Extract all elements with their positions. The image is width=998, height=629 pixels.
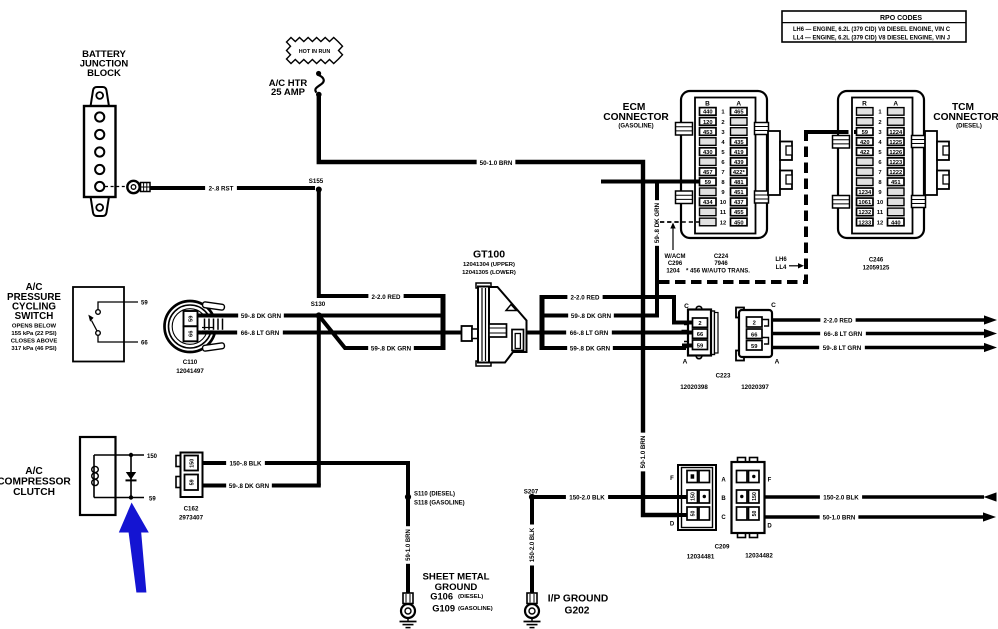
svg-text:G109: G109 <box>432 604 455 614</box>
svg-text:CLOSES ABOVE: CLOSES ABOVE <box>11 338 58 344</box>
C246 label <box>863 258 890 272</box>
svg-text:I/P GROUND: I/P GROUND <box>548 594 608 605</box>
splice S155 <box>309 178 324 193</box>
svg-text:A: A <box>893 101 898 108</box>
connector C110 <box>165 301 228 375</box>
svg-text:RPO CODES: RPO CODES <box>880 15 922 22</box>
svg-text:(DIESEL): (DIESEL) <box>458 594 483 600</box>
wire stubs into C223 <box>688 323 693 346</box>
svg-text:G106: G106 <box>430 592 453 602</box>
svg-text:435: 435 <box>734 140 744 146</box>
svg-text:150-2.0 BLK: 150-2.0 BLK <box>569 494 605 501</box>
wire 59-.8 DK GRN right (to ECM) <box>542 182 661 321</box>
svg-text:LL4 — ENGINE, 6.2L (379 CID) V: LL4 — ENGINE, 6.2L (379 CID) V8 DIESEL E… <box>793 36 950 42</box>
ring terminal <box>127 181 150 193</box>
svg-text:12041497: 12041497 <box>176 368 204 375</box>
TCM connector C246 <box>833 91 950 238</box>
svg-text:317 kPa (46 PSI): 317 kPa (46 PSI) <box>11 346 56 352</box>
svg-text:50-1.0 BRN: 50-1.0 BRN <box>480 160 513 167</box>
RPO codes table <box>782 11 966 42</box>
svg-text:66-.8 LT GRN: 66-.8 LT GRN <box>570 330 609 337</box>
svg-text:59-.8 DK GRN: 59-.8 DK GRN <box>570 345 611 352</box>
ECM connector C224 <box>676 91 793 238</box>
svg-text:12041304 (UPPER): 12041304 (UPPER) <box>463 262 515 268</box>
fuse A/C HTR 25 AMP <box>269 71 324 98</box>
svg-text:C224: C224 <box>714 254 729 260</box>
svg-text:2: 2 <box>698 321 701 327</box>
A/C compressor clutch <box>0 437 158 515</box>
svg-text:25 AMP: 25 AMP <box>271 87 306 98</box>
wire 59-.8 LT GRN output <box>772 343 997 352</box>
svg-text:453: 453 <box>703 130 713 136</box>
svg-text:59: 59 <box>141 301 148 307</box>
svg-text:150-.8 BLK: 150-.8 BLK <box>230 460 263 467</box>
svg-text:59-.8 LT GRN: 59-.8 LT GRN <box>823 345 862 352</box>
svg-text:C246: C246 <box>869 258 884 264</box>
svg-text:BLOCK: BLOCK <box>87 68 121 79</box>
svg-text:12034482: 12034482 <box>745 553 773 560</box>
svg-text:(DIESEL): (DIESEL) <box>956 124 982 130</box>
svg-text:R: R <box>862 101 867 108</box>
svg-text:7: 7 <box>721 170 724 176</box>
svg-text:C223: C223 <box>716 373 731 380</box>
svg-text:440: 440 <box>891 220 901 226</box>
wire 50-1.0 BRN <box>319 96 688 515</box>
W/ACM C296 callout <box>665 223 686 275</box>
svg-text:7: 7 <box>878 170 881 176</box>
wire 59-.8 DK GRN to C162 <box>203 482 321 490</box>
svg-text:C162: C162 <box>184 506 199 513</box>
svg-text:12020397: 12020397 <box>741 384 769 391</box>
svg-text:A: A <box>736 101 741 108</box>
wire 66-.8 LT GRN output <box>772 329 997 338</box>
svg-text:D: D <box>670 522 675 528</box>
svg-text:LH6: LH6 <box>775 257 787 263</box>
wire from S130 down to C162 <box>317 317 321 486</box>
svg-text:419: 419 <box>734 150 744 156</box>
svg-text:150-2.0 BLK: 150-2.0 BLK <box>530 527 536 562</box>
svg-text:59-.8 DK GRN: 59-.8 DK GRN <box>241 313 282 320</box>
splice S110 <box>405 491 465 506</box>
A/C pressure cycling switch <box>7 282 148 362</box>
ECM connector label <box>603 102 669 130</box>
dashed stub into TCM pin R3 <box>806 130 857 134</box>
svg-text:1232: 1232 <box>858 210 871 216</box>
svg-text:120: 120 <box>703 120 713 126</box>
svg-text:S207: S207 <box>524 488 539 495</box>
dashed wire to C296 (W/ACM) <box>660 221 700 223</box>
svg-text:451: 451 <box>891 180 901 186</box>
C224 label <box>686 254 750 274</box>
svg-text:50-1.0 BRN: 50-1.0 BRN <box>823 514 856 521</box>
svg-text:OPENS BELOW: OPENS BELOW <box>12 323 57 329</box>
svg-text:150: 150 <box>147 454 158 460</box>
svg-text:C: C <box>721 515 726 521</box>
wire 150-2.0 BLK right <box>532 494 688 502</box>
wire 2-2.0 RED right <box>542 294 692 323</box>
svg-text:LL4: LL4 <box>776 265 787 271</box>
svg-text:G202: G202 <box>565 606 590 617</box>
svg-text:1234: 1234 <box>858 190 872 196</box>
svg-text:481: 481 <box>734 180 744 186</box>
svg-text:W/ACM: W/ACM <box>665 254 686 260</box>
connector 12034482 <box>721 458 773 560</box>
svg-text:59: 59 <box>188 315 194 322</box>
svg-text:S155: S155 <box>309 178 324 185</box>
wire 2-2.0 RED left <box>319 190 443 301</box>
LH6 LL4 callout <box>775 257 804 271</box>
svg-text:HOT IN RUN: HOT IN RUN <box>299 49 331 55</box>
svg-text:A: A <box>775 359 780 366</box>
svg-text:50-1.0 BRN: 50-1.0 BRN <box>640 435 647 468</box>
svg-text:* 456 W/AUTO TRANS.: * 456 W/AUTO TRANS. <box>686 268 750 274</box>
svg-text:C296: C296 <box>668 261 683 267</box>
svg-text:2-2.0 RED: 2-2.0 RED <box>571 294 600 301</box>
svg-text:S110 (DIESEL): S110 (DIESEL) <box>414 491 455 497</box>
svg-text:C: C <box>771 302 776 309</box>
wire 66-.8 LT GRN row <box>198 329 443 337</box>
svg-text:1224: 1224 <box>889 130 903 136</box>
svg-text:430: 430 <box>703 150 713 156</box>
TCM connector label <box>933 102 998 130</box>
svg-text:2-2.0 RED: 2-2.0 RED <box>372 294 401 301</box>
svg-text:451: 451 <box>734 190 744 196</box>
svg-text:2973407: 2973407 <box>179 515 204 522</box>
svg-text:12020398: 12020398 <box>680 384 708 391</box>
svg-text:59-.8 DK GRN: 59-.8 DK GRN <box>229 483 270 490</box>
wire stub into ECM pin B8 <box>681 180 700 184</box>
svg-text:B: B <box>705 101 710 108</box>
svg-text:GT100: GT100 <box>473 249 505 261</box>
svg-text:439: 439 <box>734 160 744 166</box>
svg-text:59-1.0 BRN: 59-1.0 BRN <box>406 529 412 561</box>
svg-text:1233: 1233 <box>858 220 872 226</box>
svg-text:12041305 (LOWER): 12041305 (LOWER) <box>462 270 516 276</box>
svg-text:50: 50 <box>752 511 758 517</box>
svg-text:12034481: 12034481 <box>687 554 715 561</box>
wire 59-.8 DK GRN branch from S130 <box>319 316 443 353</box>
svg-text:10: 10 <box>877 200 883 206</box>
svg-text:F: F <box>670 476 674 482</box>
svg-text:2-2.0 RED: 2-2.0 RED <box>824 317 853 324</box>
svg-text:66: 66 <box>697 332 704 338</box>
svg-text:66-.8 LT GRN: 66-.8 LT GRN <box>824 331 863 338</box>
svg-text:59-.8 DK GRN: 59-.8 DK GRN <box>371 345 412 352</box>
svg-text:1061: 1061 <box>858 200 872 206</box>
svg-text:12059125: 12059125 <box>863 266 890 272</box>
wire stubs into C209 <box>678 497 688 515</box>
svg-text:S118 (GASOLINE): S118 (GASOLINE) <box>414 501 465 507</box>
svg-text:1204: 1204 <box>666 268 680 274</box>
dashed stub into ECM pin B12 <box>660 221 700 223</box>
wire 2-.8 RST <box>150 185 315 193</box>
svg-text:C110: C110 <box>183 359 198 366</box>
svg-text:COMPRESSOR: COMPRESSOR <box>0 477 71 488</box>
svg-text:59-.8 DK GRN: 59-.8 DK GRN <box>654 202 661 243</box>
svg-text:7946: 7946 <box>714 261 728 267</box>
svg-text:50: 50 <box>691 511 697 517</box>
svg-text:12: 12 <box>720 220 726 226</box>
wire 150-2.0 BLK output <box>765 492 997 501</box>
svg-text:455: 455 <box>734 210 744 216</box>
GT100 bulkhead connector <box>443 249 544 366</box>
wire 59-.8 DK GRN row <box>198 312 443 320</box>
svg-text:450: 450 <box>734 220 744 226</box>
connector C209 (12034481) <box>670 465 730 561</box>
svg-text:1226: 1226 <box>889 150 903 156</box>
svg-text:434: 434 <box>703 200 713 206</box>
wire 66-.8 LT GRN right <box>542 329 693 337</box>
svg-text:LH6 — ENGINE, 6.2L (379 CID) V: LH6 — ENGINE, 6.2L (379 CID) V8 DIESEL E… <box>793 27 951 33</box>
svg-text:A: A <box>721 477 726 483</box>
svg-text:12: 12 <box>877 220 883 226</box>
svg-text:10: 10 <box>720 200 726 206</box>
svg-text:66-.8 LT GRN: 66-.8 LT GRN <box>241 330 280 337</box>
svg-text:B: B <box>721 496 726 502</box>
battery junction block <box>80 49 129 216</box>
svg-text:66: 66 <box>188 330 194 337</box>
svg-text:59: 59 <box>705 180 712 186</box>
connector C223 (12020398) <box>680 303 731 391</box>
svg-text:CLUTCH: CLUTCH <box>13 487 55 498</box>
svg-text:11: 11 <box>720 210 727 216</box>
svg-text:A: A <box>683 359 688 366</box>
svg-text:CONNECTOR: CONNECTOR <box>933 112 998 123</box>
svg-text:CONNECTOR: CONNECTOR <box>603 112 669 123</box>
svg-text:420: 420 <box>860 140 870 146</box>
svg-text:457: 457 <box>703 170 713 176</box>
ECM pin B8 stub wire <box>601 180 700 184</box>
wire 59-.8 DK GRN right lower <box>542 345 693 353</box>
ground G202 I/P ground <box>524 593 609 628</box>
wire 150-2.0 BLK to ground <box>528 497 536 593</box>
hot in run tag <box>287 38 343 64</box>
svg-text:2: 2 <box>878 120 881 126</box>
svg-text:2: 2 <box>753 321 756 327</box>
svg-text:150: 150 <box>691 492 697 501</box>
blue pointer arrow <box>119 503 149 593</box>
svg-text:422*: 422* <box>733 170 746 176</box>
connector C162 <box>176 453 204 522</box>
svg-text:11: 11 <box>877 210 884 216</box>
svg-text:1225: 1225 <box>889 140 903 146</box>
svg-text:1222: 1222 <box>889 170 902 176</box>
svg-text:(GASOLINE): (GASOLINE) <box>458 606 493 612</box>
dashed lead from block to ring terminal <box>105 186 126 188</box>
splice S130 <box>311 301 326 319</box>
svg-text:465: 465 <box>734 110 744 116</box>
svg-text:59: 59 <box>189 479 195 485</box>
svg-text:1223: 1223 <box>889 160 903 166</box>
wire 150-.8 BLK <box>203 460 409 496</box>
svg-text:59: 59 <box>149 496 156 502</box>
svg-text:437: 437 <box>734 200 744 206</box>
svg-text:2: 2 <box>721 120 724 126</box>
svg-text:422: 422 <box>860 150 870 156</box>
splice S207 <box>524 488 539 500</box>
svg-text:66: 66 <box>141 341 148 347</box>
svg-text:A/C: A/C <box>25 466 43 477</box>
svg-text:59: 59 <box>862 130 869 136</box>
svg-text:66: 66 <box>751 332 758 338</box>
svg-text:155 kPa (22 PSI): 155 kPa (22 PSI) <box>11 331 56 337</box>
svg-text:59: 59 <box>697 343 704 349</box>
svg-text:440: 440 <box>703 110 713 116</box>
svg-text:150: 150 <box>189 459 195 468</box>
svg-text:C209: C209 <box>715 544 730 551</box>
svg-text:F: F <box>768 477 772 483</box>
dashed wire 59 to TCM (diesel) <box>659 132 856 282</box>
wire 59-1.0 BRN to ground <box>404 497 412 593</box>
wire 2-2.0 RED output <box>772 315 997 324</box>
svg-text:2-.8 RST: 2-.8 RST <box>209 186 234 193</box>
svg-text:150: 150 <box>752 492 758 501</box>
svg-text:(GASOLINE): (GASOLINE) <box>618 124 653 130</box>
svg-text:C: C <box>684 303 689 310</box>
svg-text:D: D <box>767 524 772 530</box>
svg-text:150-2.0 BLK: 150-2.0 BLK <box>823 494 859 501</box>
ground G106/G109 sheet metal ground <box>400 572 493 628</box>
svg-text:SWITCH: SWITCH <box>15 311 54 322</box>
svg-text:S130: S130 <box>311 301 326 308</box>
wire 50-1.0 BRN output <box>765 512 997 521</box>
connector 12020397 <box>736 302 780 391</box>
svg-text:59-.8 DK GRN: 59-.8 DK GRN <box>571 313 612 320</box>
svg-text:59: 59 <box>751 344 758 350</box>
